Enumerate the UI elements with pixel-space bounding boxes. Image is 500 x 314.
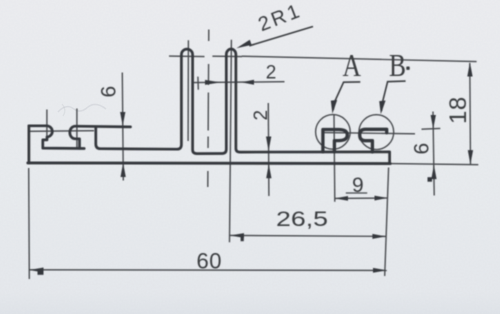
dimension line 9 <box>335 197 388 199</box>
leader of label B <box>382 81 406 111</box>
arrowhead leader A <box>331 100 337 114</box>
svg-text:6: 6 <box>411 143 434 155</box>
svg-text:9: 9 <box>352 174 364 197</box>
arrow 6 left lower <box>121 163 126 177</box>
centerline of left fin <box>187 40 189 141</box>
svg-text:26,5: 26,5 <box>276 208 328 231</box>
left extension line for 60 <box>28 168 31 279</box>
svg-text:2: 2 <box>266 63 277 84</box>
hook 2 <box>70 126 131 148</box>
arrow 2 right lower <box>266 164 271 178</box>
arrow 2 right upper <box>266 137 271 152</box>
leader of label 2R1 <box>249 27 313 46</box>
top surface with hook 1 and left slot floor <box>29 126 84 149</box>
hook of screw boss B <box>360 129 387 152</box>
arrow 26,5 left <box>230 233 244 238</box>
arrow 60 left <box>29 268 43 273</box>
svg-text:2: 2 <box>251 110 272 121</box>
dash-dot centerline between fins <box>208 30 209 188</box>
svg-text:60: 60 <box>197 249 222 274</box>
dimension line 2 at top <box>194 81 285 84</box>
bottom edge extension to the right <box>391 164 479 165</box>
dimension line 2 right (vertical) <box>267 103 270 196</box>
extension line from fin tops to 18 dim <box>242 56 477 61</box>
arrowhead leader B <box>379 101 385 115</box>
leader of label A <box>333 82 360 110</box>
svg-text:6: 6 <box>98 86 121 98</box>
vertical centerline of left hook slot <box>46 110 48 137</box>
right extension line for 60 / 26,5 / 9 <box>385 168 389 277</box>
horizontal centerline of right fin cap <box>212 55 242 57</box>
arrow 2 top left <box>205 80 221 85</box>
arrowhead leader 2R1 <box>236 40 251 48</box>
arrow 60 right <box>373 268 387 273</box>
arrow 26,5 right <box>372 234 386 239</box>
arrow 6 right upper <box>431 115 436 129</box>
hook of screw boss A <box>323 130 347 152</box>
horizontal centerline through left hooks <box>29 130 94 133</box>
arrow 6 right lower <box>431 165 436 179</box>
arrow 9 right <box>375 196 388 201</box>
centerline of right fin / extension for 26,5 <box>230 40 232 243</box>
arrow 9 left <box>335 196 348 201</box>
dimension line 26,5 <box>230 235 386 236</box>
circle of screw boss B <box>359 115 394 150</box>
svg-text:18: 18 <box>445 96 472 124</box>
dimension line 18 (vertical) <box>469 63 472 165</box>
arrow 2 top right <box>241 80 254 85</box>
horizontal centerline through bosses A and B <box>324 133 416 134</box>
small tick on 2 dim <box>197 77 199 90</box>
bottom edge of profile <box>28 161 390 165</box>
faint bleed-through squiggles <box>58 104 106 112</box>
arrow 18 top <box>467 62 472 76</box>
svg-text:B: B <box>389 47 406 83</box>
underline of text 9 (not-to-scale mark) <box>346 192 367 194</box>
arrow 6 left upper <box>120 112 125 126</box>
circle of screw boss A <box>316 115 351 150</box>
dimension line 60 <box>29 269 387 272</box>
extension tick for right 6 dim <box>422 127 441 130</box>
dimension line 6 right (vertical) <box>433 112 434 196</box>
vertical centerline of second hook slot <box>76 109 78 149</box>
dimension line 6 left (vertical) <box>122 73 123 181</box>
inner wall, floors, fins with round caps, plate and right edge <box>96 49 390 163</box>
svg-text:A: A <box>343 47 362 83</box>
horizontal centerline of left fin cap <box>169 55 205 58</box>
dot after label B <box>406 67 409 70</box>
left edge of profile <box>28 126 31 163</box>
extension below boss A for 9 <box>333 114 336 202</box>
arrow 18 bottom <box>468 150 473 164</box>
